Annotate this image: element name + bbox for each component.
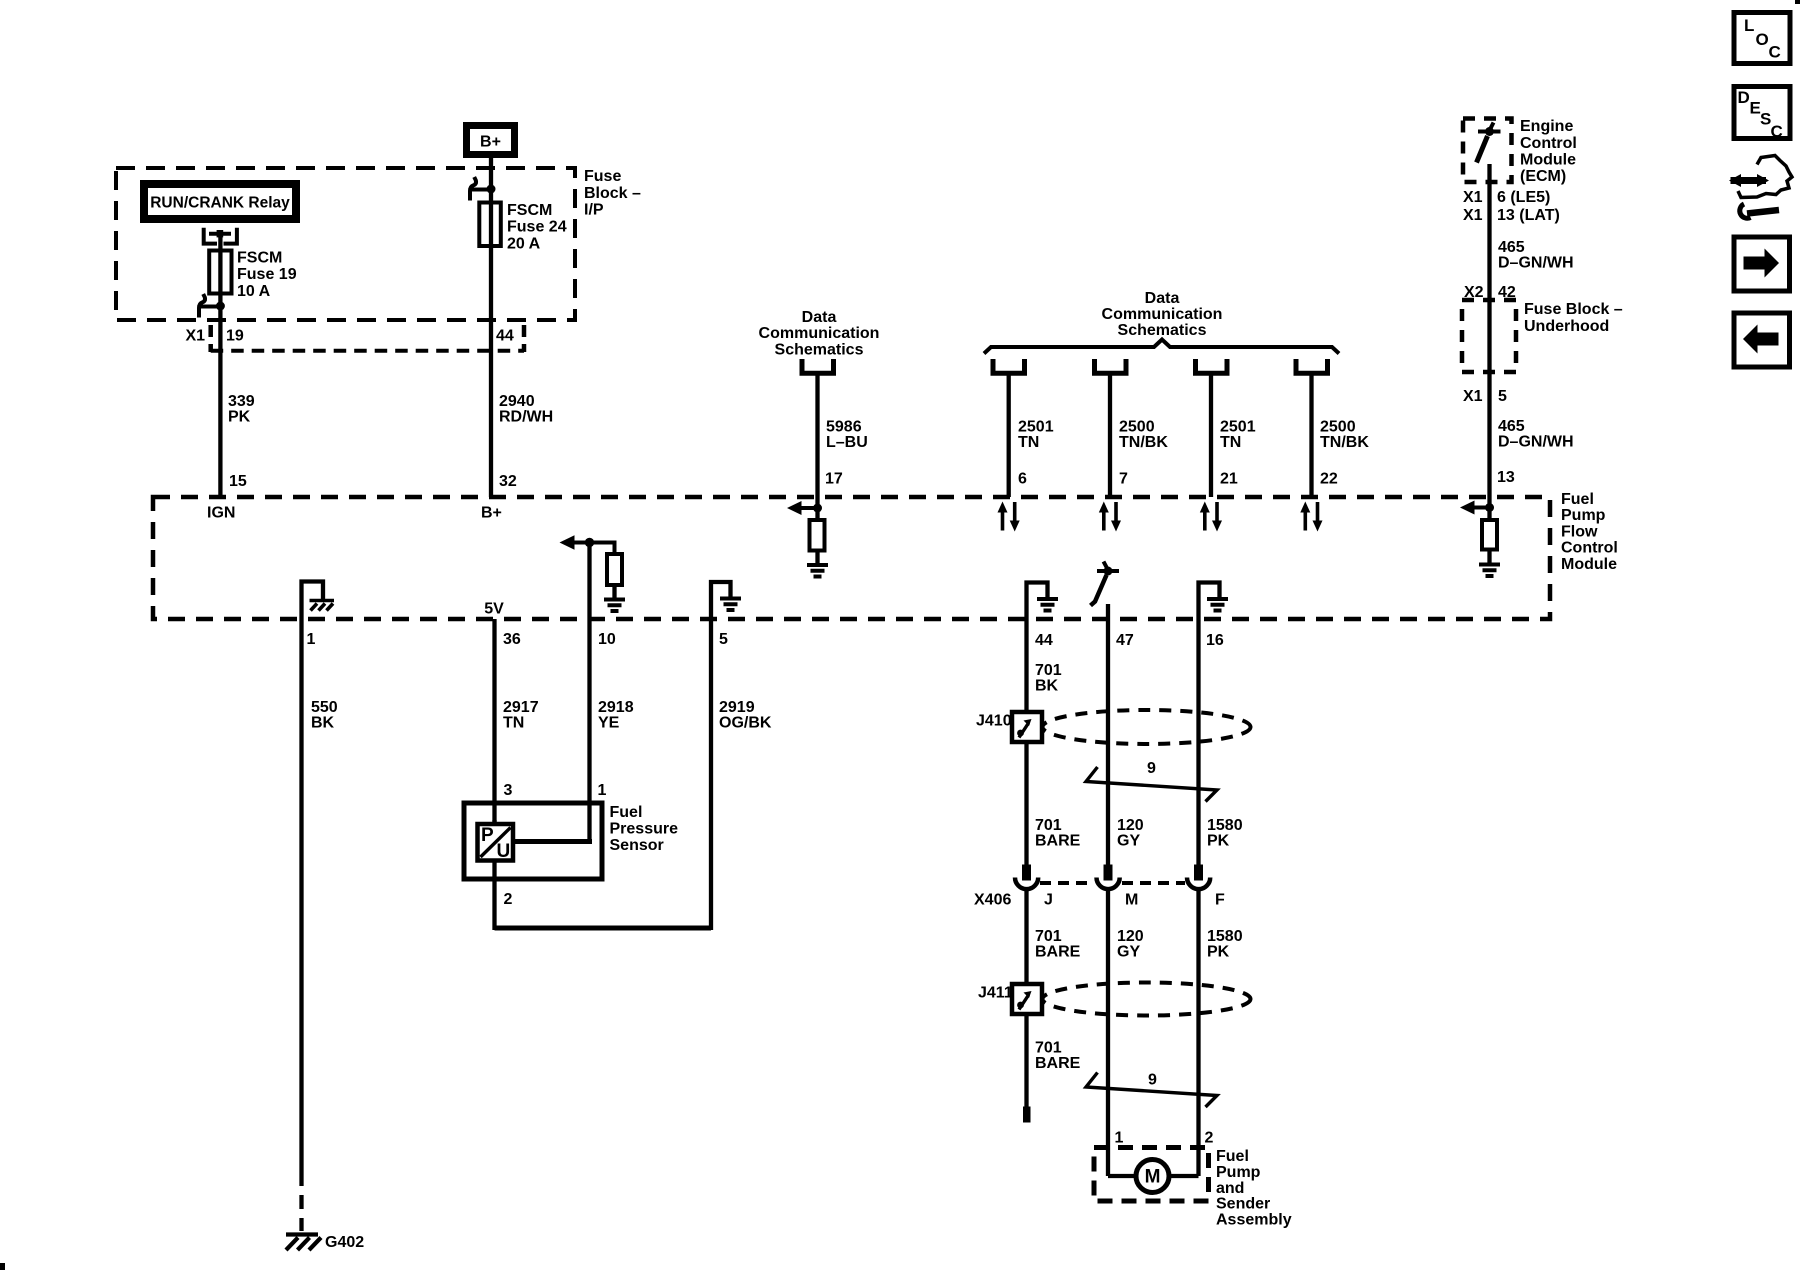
wire 5986 L-BU [818,373,868,497]
pin 44 label [1035,632,1053,649]
fuse block underhood label [1524,301,1623,335]
sensor pin 2 label [504,891,513,908]
brace over data bus wires [984,340,1339,354]
twisted pair marker 9 (upper) [1086,760,1217,802]
module internal: up/down arrows pin 22 [1300,502,1322,532]
svg-text:1: 1 [307,631,316,648]
fuel pump flow control module dashed box [153,497,1550,619]
X406 labels [974,892,1225,909]
svg-text:701: 701 [1035,817,1062,834]
module internal: pin 5 hook to ground [711,582,741,619]
svg-text:Pressure: Pressure [610,821,679,838]
module internal: pin 16 hook to ground [1199,583,1229,620]
svg-text:1580: 1580 [1207,928,1243,945]
svg-text:1580: 1580 [1207,817,1243,834]
module internal: up/down arrows pin 7 [1099,502,1121,532]
svg-text:OG/BK: OG/BK [719,715,772,732]
wire 2919 OG/BK (pin 5 to sensor pin 2) [711,619,772,930]
connector X2 42 labels [1464,284,1516,301]
svg-text:GY: GY [1117,944,1140,961]
svg-text:2: 2 [1205,1130,1214,1147]
svg-text:Control: Control [1520,135,1577,152]
svg-text:L: L [1744,16,1754,35]
svg-text:465: 465 [1498,239,1525,256]
RUN/CRANK Relay box [144,184,296,219]
wire 550 BK (pin 1 to G402) [302,619,338,1231]
svg-text:TN/BK: TN/BK [1320,434,1369,451]
engine control module (ECM) dashed box [1463,119,1512,183]
svg-text:Block –: Block – [584,185,641,202]
svg-text:BK: BK [311,715,335,732]
svg-text:1: 1 [598,782,607,799]
svg-text:C: C [1771,122,1783,141]
svg-text:Communication: Communication [1102,306,1223,323]
svg-text:PK: PK [1207,833,1230,850]
module internal: wire resistor to ground [1487,549,1491,563]
svg-text:Fuel: Fuel [1216,1148,1249,1165]
fuse block I/P label [584,168,641,219]
back arrow nav box [1734,313,1790,367]
connector squiggle at B+ tap [470,177,490,201]
svg-text:44: 44 [1035,632,1053,649]
svg-text:32: 32 [499,473,517,490]
off-page connector pin 6 [993,359,1025,373]
svg-text:D–GN/WH: D–GN/WH [1498,255,1574,272]
svg-text:2501: 2501 [1220,419,1256,436]
wire 2918 YE (pin 10 to sensor pin 1) [590,619,634,842]
wire 120 GY (pin 47 to X406) [1108,604,1144,865]
svg-text:M: M [1145,1167,1161,1188]
fuel pump motor [1108,1160,1199,1193]
off-page connector pin 7 [1095,359,1127,373]
pin 15 label [229,473,247,490]
module internal: switch at pin 47 [1091,562,1120,606]
fuse FSCM Fuse 19 10 A [209,250,296,301]
svg-text:X1: X1 [1463,189,1483,206]
P/U transducer symbol [478,824,514,862]
svg-text:550: 550 [311,699,338,716]
svg-text:5986: 5986 [826,419,862,436]
svg-text:Flow: Flow [1561,524,1598,541]
svg-text:13: 13 [1497,469,1515,486]
connector X406 terminal M [1097,865,1120,890]
svg-text:2918: 2918 [598,699,634,716]
svg-text:L–BU: L–BU [826,434,868,451]
svg-text:Fuse: Fuse [584,168,621,185]
svg-text:TN: TN [1018,434,1039,451]
ECM internal switch [1477,123,1501,163]
module internal: wire pin 13 to resistor [1487,497,1491,521]
svg-text:47: 47 [1116,632,1134,649]
svg-text:Schematics: Schematics [775,342,864,359]
svg-text:21: 21 [1220,471,1238,488]
J411 harness ellipse [1043,983,1251,1016]
connector X406 terminal F [1187,865,1210,890]
off-page connector pin 17 [802,359,834,373]
splice J411 [978,984,1042,1014]
svg-text:BK: BK [1035,678,1059,695]
svg-text:U: U [497,841,511,862]
svg-text:13 (LAT): 13 (LAT) [1497,207,1560,224]
module internal: wire resistor to ground [815,550,819,563]
B+ net label [481,505,502,522]
off-page connector pin 22 [1296,359,1328,373]
wire 2500 TN/BK (pin 7) [1110,373,1168,497]
module internal: pin 13 arrow to left [1460,501,1494,515]
svg-text:IGN: IGN [207,505,235,522]
svg-text:5: 5 [1498,388,1507,405]
svg-text:2500: 2500 [1320,419,1356,436]
svg-text:Control: Control [1561,540,1618,557]
wire label 339 PK [228,393,255,426]
module internal: ground at pin 17 [807,565,828,577]
J410 harness ellipse [1043,710,1251,744]
svg-text:44: 44 [496,328,514,345]
wire 2917 TN (pin 36 to sensor pin 3) [495,619,539,824]
svg-text:J410: J410 [976,713,1012,730]
fuel pump and sender assembly dashed box [1094,1148,1209,1202]
IGN net label [207,505,235,522]
module internal: pin 1 hook to chassis ground [302,582,335,620]
wire label 2940 RD/WH [499,393,553,426]
svg-text:120: 120 [1117,817,1144,834]
svg-text:701: 701 [1035,1040,1062,1057]
scan artifact top right [1795,0,1800,4]
svg-text:G402: G402 [325,1234,364,1251]
pin 13 label [1497,469,1515,486]
connector X1 row (fuse block outputs) [186,325,525,352]
pin 1 label [307,631,316,648]
svg-text:F: F [1215,892,1225,909]
svg-text:Fuel: Fuel [610,804,643,821]
fuse FSCM Fuse 24 20 A [479,202,566,253]
svg-text:10: 10 [598,631,616,648]
svg-text:Engine: Engine [1520,118,1573,135]
pin 16 label [1206,632,1224,649]
wire 1580 PK (X406 to fuel pump) [1199,890,1243,1177]
LOC nav box [1734,13,1790,64]
fuel pressure sensor box [464,803,678,879]
data communication schematics label (left) [759,309,880,359]
svg-text:Fuse 19: Fuse 19 [237,266,297,283]
svg-text:2917: 2917 [503,699,539,716]
ECM label [1520,118,1577,185]
module internal: resistor at pin 17 [810,520,825,551]
svg-text:PK: PK [1207,944,1230,961]
svg-text:465: 465 [1498,418,1525,435]
svg-text:17: 17 [825,471,843,488]
svg-text:X406: X406 [974,892,1011,909]
svg-text:Pump: Pump [1561,507,1606,524]
svg-text:FSCM: FSCM [507,202,552,219]
svg-text:2501: 2501 [1018,419,1054,436]
X406 connector dashed link [1040,881,1185,885]
wire IGN 339 PK (fuse block to module) [218,234,222,497]
twisted pair marker 9 (lower) [1086,1072,1217,1108]
svg-text:I/P: I/P [584,202,604,219]
sensor internal wire pin 3 through P/U to pin 2 [492,820,496,930]
svg-text:Schematics: Schematics [1118,322,1207,339]
svg-text:B+: B+ [480,134,501,151]
svg-text:J411: J411 [978,985,1013,1002]
svg-text:BARE: BARE [1035,833,1081,850]
sensor internal wire pin1 to P/U [513,839,590,842]
svg-text:C: C [1769,43,1781,62]
svg-text:120: 120 [1117,928,1144,945]
module internal: ground at pin 13 [1479,565,1500,577]
svg-text:Fuse Block –: Fuse Block – [1524,301,1623,318]
svg-text:X1: X1 [186,328,206,345]
svg-text:TN: TN [503,715,524,732]
module internal: up/down arrows pin 6 [998,502,1020,532]
svg-text:1: 1 [1115,1130,1124,1147]
svg-text:RUN/CRANK Relay: RUN/CRANK Relay [150,195,290,212]
svg-text:Communication: Communication [759,325,880,342]
module internal: pin 44 hook to ground [1027,583,1059,620]
svg-text:2940: 2940 [499,393,535,410]
svg-text:D–GN/WH: D–GN/WH [1498,434,1574,451]
wire 465 D-GN/WH (ECM to module pin 13) [1487,164,1491,497]
pin 32 label [499,473,517,490]
svg-text:Sender: Sender [1216,1196,1270,1213]
svg-text:5: 5 [719,631,728,648]
svg-text:BARE: BARE [1035,1055,1081,1072]
pin 10 label [598,631,616,648]
wire 701 BARE (X406 to J411) [1027,890,1081,985]
svg-text:3: 3 [504,782,513,799]
svg-text:RD/WH: RD/WH [499,409,553,426]
svg-text:22: 22 [1320,471,1338,488]
svg-text:9: 9 [1148,1072,1157,1089]
fuel pump pin 2 label [1205,1130,1214,1147]
svg-text:BARE: BARE [1035,944,1081,961]
svg-text:Fuel: Fuel [1561,491,1594,508]
wire 120 GY (X406 to fuel pump) [1108,890,1144,1177]
svg-text:16: 16 [1206,632,1224,649]
module internal: pin 10 wire through module [587,542,591,619]
wire 2500 TN/BK (pin 22) [1312,373,1370,497]
svg-text:M: M [1125,892,1138,909]
svg-text:Sensor: Sensor [610,837,664,854]
svg-text:701: 701 [1035,928,1062,945]
svg-text:GY: GY [1117,833,1140,850]
svg-text:Data: Data [802,309,837,326]
svg-text:P: P [481,825,494,846]
wire 1580 PK (pin 16 to X406) [1199,619,1243,865]
power feed B+ box [467,126,515,155]
module internal: resistor at pin 10 [607,554,622,585]
svg-text:X1: X1 [1463,388,1483,405]
connector X406 terminal J [1015,865,1038,890]
fuel pump flow control module label [1561,491,1618,573]
module internal: wire from pin 17 to resistor [815,497,819,521]
module internal: pin 17 arrow to left [787,501,822,515]
wire 2501 TN (pin 21) [1211,373,1256,497]
module internal: 5V net label [484,601,504,618]
wire 701 BARE (J411 end) [1027,1014,1081,1107]
svg-text:B+: B+ [481,505,502,522]
sensor pin 1 label [598,782,607,799]
svg-text:10 A: 10 A [237,283,271,300]
svg-text:Data: Data [1145,290,1180,307]
svg-text:X1: X1 [1463,207,1483,224]
scan artifact bottom left [0,1263,5,1270]
svg-text:19: 19 [226,328,244,345]
connector squiggle at fuse 19 output [199,294,220,318]
svg-text:Module: Module [1561,556,1617,573]
svg-text:2: 2 [504,891,513,908]
module internal: resistor at pin 13 [1482,520,1497,550]
svg-text:5V: 5V [484,601,504,618]
module internal: up/down arrows pin 21 [1200,502,1222,532]
fuse block I/P dashed box [116,168,575,320]
svg-text:2500: 2500 [1119,419,1155,436]
pin 36 label [503,631,521,648]
wire 701 BARE (J410 to X406) [1027,742,1081,865]
next arrow nav box [1734,237,1790,291]
svg-text:701: 701 [1035,662,1062,679]
fuse block underhood dashed box [1462,300,1516,372]
wire B+ 2940 RD/WH (B+ box to module) [489,155,493,497]
svg-text:Pump: Pump [1216,1164,1261,1181]
off-page connector pin 21 [1196,359,1228,373]
svg-text:20 A: 20 A [507,236,541,253]
data communication schematics label (center) [1102,290,1223,339]
svg-text:Module: Module [1520,152,1576,169]
svg-text:D: D [1738,88,1750,107]
svg-text:TN: TN [1220,434,1241,451]
svg-text:PK: PK [228,409,251,426]
wire sensor pin 2 to 2919 [495,926,712,931]
junction dot below fuse 19 [216,302,225,311]
svg-text:2919: 2919 [719,699,755,716]
svg-text:and: and [1216,1180,1244,1197]
fuel pump pin 1 label [1115,1130,1124,1147]
svg-text:36: 36 [503,631,521,648]
module internal: ground at pin 10 [604,600,625,612]
svg-text:YE: YE [598,715,620,732]
DESC nav box [1734,87,1790,142]
module internal: pin 10 junction arrow and resistor to ground [560,535,615,554]
701 BARE end terminal [1023,1107,1031,1123]
wire 701 BK (pin 44 to J410) [1027,619,1062,712]
pin 5 label [719,631,728,648]
svg-text:J: J [1044,892,1053,909]
wire label 465 D-GN/WH (upper) [1498,239,1574,272]
pin 47 label [1116,632,1134,649]
svg-text:6 (LE5): 6 (LE5) [1497,189,1550,206]
relay terminal symbol [204,228,237,244]
svg-text:Fuse 24: Fuse 24 [507,219,567,236]
svg-text:TN/BK: TN/BK [1119,434,1168,451]
hand tool nav icon [1729,156,1792,219]
wire label 465 D-GN/WH (lower) [1498,418,1574,451]
svg-text:O: O [1756,30,1769,49]
svg-text:FSCM: FSCM [237,250,282,267]
ECM pin labels X1 6 / X1 13 [1463,189,1560,224]
svg-text:(ECM): (ECM) [1520,168,1566,185]
junction dot on B+ wire [487,185,496,194]
sensor pin 3 label [504,782,513,799]
svg-text:Underhood: Underhood [1524,318,1609,335]
svg-text:339: 339 [228,393,255,410]
svg-text:9: 9 [1147,760,1156,777]
ground G402 [286,1234,364,1251]
connector X1 5 labels [1463,388,1507,405]
module internal: wire resistor to ground [612,585,616,598]
svg-text:6: 6 [1018,471,1027,488]
splice J410 [976,712,1042,742]
wire 2501 TN (pin 6) [1009,373,1054,497]
svg-text:Assembly: Assembly [1216,1212,1292,1229]
fuel pump label [1216,1148,1292,1229]
svg-text:7: 7 [1119,471,1128,488]
svg-text:15: 15 [229,473,247,490]
